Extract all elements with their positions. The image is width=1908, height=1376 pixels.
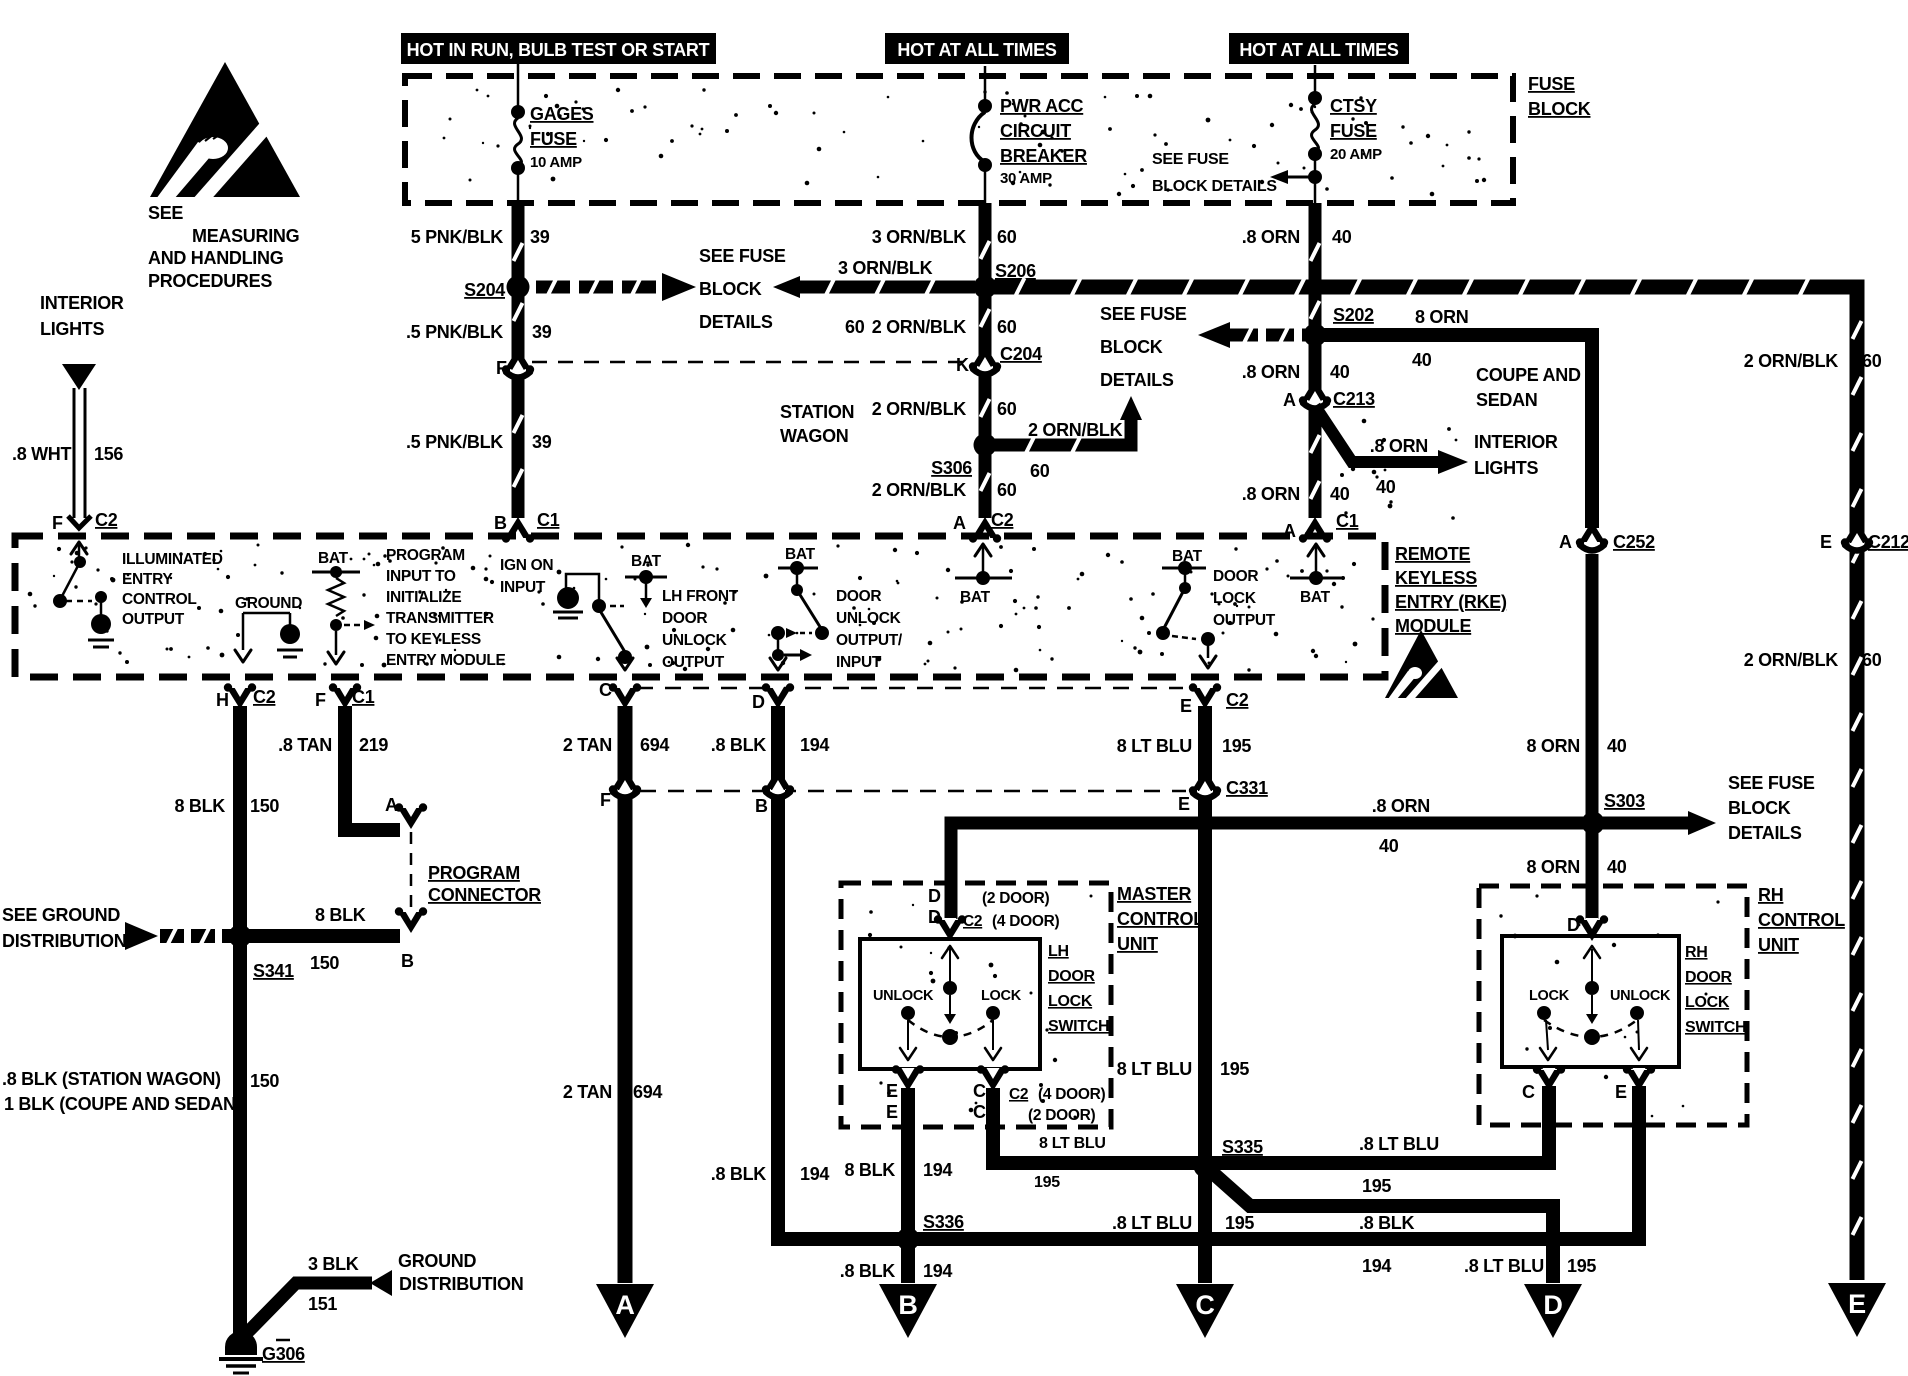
connector A C252 (inline on 40 ORN) xyxy=(1559,521,1655,552)
label 8 BLK 150 (program branch) xyxy=(310,905,366,973)
svg-text:OUTPUT: OUTPUT xyxy=(122,611,185,628)
svg-text:A: A xyxy=(1283,390,1296,410)
note SEE FUSE BLOCK DETAILS (far right) xyxy=(1728,773,1815,843)
svg-text:INTERIOR: INTERIOR xyxy=(1474,432,1558,452)
svg-text:UNIT: UNIT xyxy=(1758,935,1799,955)
label ILLUMINATED ENTRY CONTROL OUTPUT xyxy=(122,551,223,628)
svg-text:FUSE: FUSE xyxy=(1528,74,1575,94)
svg-text:D: D xyxy=(752,692,765,712)
ESD symbol (small, at module) xyxy=(1385,630,1458,702)
label PROGRAM CONNECTOR xyxy=(428,863,541,905)
svg-text:S335: S335 xyxy=(1222,1137,1263,1157)
svg-text:S341: S341 xyxy=(253,961,294,981)
wire 194 BLK from lh switch E to S336 xyxy=(901,1088,915,1283)
svg-text:40: 40 xyxy=(1330,362,1350,382)
label 3 BLK 151 xyxy=(308,1254,359,1314)
note SEE FUSE BLOCK DETAILS (center) xyxy=(699,246,786,332)
svg-text:PWR ACC: PWR ACC xyxy=(1000,96,1084,116)
svg-text:UNLOCK: UNLOCK xyxy=(873,988,934,1004)
label .8 WHT 156 xyxy=(12,444,123,464)
svg-text:FUSE: FUSE xyxy=(1330,121,1377,141)
label .8 BLK 194 (to offpage B) xyxy=(840,1261,953,1281)
label DOOR LOCK OUTPUT xyxy=(1213,568,1276,629)
svg-text:60: 60 xyxy=(997,399,1017,419)
svg-text:GROUND: GROUND xyxy=(398,1251,476,1271)
label IGN ON INPUT xyxy=(500,557,553,596)
svg-text:2 ORN/BLK: 2 ORN/BLK xyxy=(1028,420,1123,440)
svg-text:8 ORN: 8 ORN xyxy=(1526,736,1580,756)
module label REMOTE KEYLESS ENTRY (RKE) MODULE xyxy=(1395,544,1507,636)
svg-text:OUTPUT/: OUTPUT/ xyxy=(836,632,903,649)
svg-text:150: 150 xyxy=(250,796,279,816)
wire 219 TAN from F to program connector A xyxy=(345,706,400,830)
label LH FRONT DOOR UNLOCK OUTPUT xyxy=(662,588,739,671)
dashed link C2 connector row xyxy=(637,687,1183,690)
label .5 PNK/BLK 39 (upper) xyxy=(406,322,552,342)
svg-text:H: H xyxy=(216,690,229,710)
svg-text:2 TAN: 2 TAN xyxy=(563,735,612,755)
label 8 BLK 150 xyxy=(174,796,279,816)
svg-text:60: 60 xyxy=(997,317,1017,337)
svg-text:C212: C212 xyxy=(1868,532,1908,552)
svg-text:A: A xyxy=(1559,532,1572,552)
svg-text:195: 195 xyxy=(1220,1059,1249,1079)
switch RH DOOR LOCK SWITCH (box) xyxy=(1502,936,1679,1067)
svg-text:2 ORN/BLK: 2 ORN/BLK xyxy=(872,480,967,500)
svg-text:(4 DOOR): (4 DOOR) xyxy=(992,913,1059,930)
svg-text:40: 40 xyxy=(1607,736,1627,756)
svg-text:CTSY: CTSY xyxy=(1330,96,1377,116)
svg-text:G306: G306 xyxy=(262,1344,305,1364)
svg-text:HOT AT ALL TIMES: HOT AT ALL TIMES xyxy=(1239,40,1398,60)
connector D into rh switch xyxy=(1567,915,1608,941)
connector D into lh switch xyxy=(928,886,1059,941)
svg-text:DOOR: DOOR xyxy=(1048,968,1096,985)
fuse GAGES 10 AMP xyxy=(511,104,594,203)
svg-text:INITIALIZE: INITIALIZE xyxy=(386,589,461,606)
svg-text:60: 60 xyxy=(845,317,865,337)
svg-text:ILLUMINATED: ILLUMINATED xyxy=(122,551,223,568)
svg-text:39: 39 xyxy=(530,227,550,247)
svg-text:LH FRONT: LH FRONT xyxy=(662,588,739,605)
svg-text:C252: C252 xyxy=(1613,532,1655,552)
svg-text:40: 40 xyxy=(1412,350,1432,370)
svg-text:IGN ON: IGN ON xyxy=(500,557,553,574)
stipple texture xyxy=(28,88,1720,1119)
svg-text:OUTPUT: OUTPUT xyxy=(1213,612,1276,629)
wire 40 ORN branch from S202 to RH side xyxy=(1315,335,1592,528)
svg-text:LOCK: LOCK xyxy=(1685,994,1730,1011)
lh switch toggle xyxy=(873,946,1022,1060)
svg-text:195: 195 xyxy=(1225,1213,1254,1233)
label RH CONTROL UNIT xyxy=(1758,885,1845,955)
label .8 LT BLU 195 (at D arrow) xyxy=(1464,1256,1596,1276)
svg-text:LIGHTS: LIGHTS xyxy=(1474,458,1538,478)
label .8 ORN 40 (horizontal) xyxy=(1372,796,1430,856)
svg-text:B: B xyxy=(898,1290,917,1320)
label 8 ORN 40 (above S303) xyxy=(1526,736,1626,756)
svg-text:40: 40 xyxy=(1330,484,1350,504)
splice S206 xyxy=(974,261,1037,299)
svg-text:LIGHTS: LIGHTS xyxy=(40,319,104,339)
svg-text:S204: S204 xyxy=(464,280,505,300)
svg-text:30 AMP: 30 AMP xyxy=(1000,170,1052,187)
svg-text:TRANSMITTER: TRANSMITTER xyxy=(386,610,494,627)
svg-text:3 ORN/BLK: 3 ORN/BLK xyxy=(838,258,933,278)
wire 60 ORN/BLK (pwr acc feed) xyxy=(981,203,990,518)
svg-text:.8 BLK: .8 BLK xyxy=(711,735,767,755)
svg-text:E: E xyxy=(1178,794,1190,814)
wire 150 BLK from H xyxy=(233,706,247,1345)
lh front door unlock output circuit (in module) xyxy=(553,553,667,670)
svg-text:194: 194 xyxy=(1362,1256,1391,1276)
svg-text:.8 ORN: .8 ORN xyxy=(1370,436,1428,456)
label 2 ORN/BLK 60 (above C204) xyxy=(872,317,1017,337)
master control unit enclosure (dashed) xyxy=(841,883,1111,1127)
svg-text:S303: S303 xyxy=(1604,791,1645,811)
label 3 ORN/BLK 60 xyxy=(872,227,1017,247)
label MASTER CONTROL UNIT xyxy=(1117,884,1204,954)
svg-text:A: A xyxy=(385,795,398,815)
rh switch connectors C and E xyxy=(1522,1065,1655,1102)
svg-text:.8 ORN: .8 ORN xyxy=(1242,227,1300,247)
power header HOT AT ALL TIMES (center) xyxy=(885,33,1069,64)
svg-text:60: 60 xyxy=(1862,650,1882,670)
wire 156 WHT from interior lights (double line) xyxy=(62,364,96,528)
svg-text:2 ORN/BLK: 2 ORN/BLK xyxy=(872,317,967,337)
program connector A-B (dashed mate) xyxy=(385,795,427,971)
svg-text:A: A xyxy=(953,513,966,533)
wire 194 BLK from D xyxy=(778,706,1639,1239)
connector D (module door unlock out) xyxy=(752,683,794,712)
svg-text:MASTER: MASTER xyxy=(1117,884,1192,904)
svg-text:.5 PNK/BLK: .5 PNK/BLK xyxy=(406,322,503,342)
svg-text:.8 WHT: .8 WHT xyxy=(12,444,72,464)
wire 195 LT BLU from lh switch C to S335 xyxy=(993,1088,1205,1163)
svg-text:BLOCK: BLOCK xyxy=(1100,337,1163,357)
main bus wire 60 ORN/BLK to right side xyxy=(985,278,1862,1280)
fuse CTSY 20 AMP xyxy=(1308,91,1382,203)
svg-text:.8 BLK: .8 BLK xyxy=(711,1164,767,1184)
svg-text:LOCK: LOCK xyxy=(1529,988,1570,1004)
connector A C2 (module bat) xyxy=(953,510,1014,543)
svg-text:BREAKER: BREAKER xyxy=(1000,146,1087,166)
svg-text:DISTRIBUTION: DISTRIBUTION xyxy=(399,1274,523,1294)
connector K C204 (inline) xyxy=(956,344,1042,375)
connector A C1 (module bat right) xyxy=(1283,511,1359,543)
svg-text:UNLOCK: UNLOCK xyxy=(836,610,902,627)
svg-text:D: D xyxy=(928,886,941,906)
note SEE FUSE BLOCK DETAILS (inside fuse block) xyxy=(1152,151,1322,195)
svg-text:KEYLESS: KEYLESS xyxy=(1395,568,1477,588)
svg-text:LOCK: LOCK xyxy=(981,988,1022,1004)
svg-text:CIRCUIT: CIRCUIT xyxy=(1000,121,1071,141)
label .8 ORN 40 (branch to interior lights) xyxy=(1370,436,1428,497)
svg-text:TO KEYLESS: TO KEYLESS xyxy=(386,631,481,648)
svg-text:SEE FUSE: SEE FUSE xyxy=(1152,151,1229,168)
illuminated entry output circuit (in module) xyxy=(53,542,114,647)
svg-text:AND HANDLING: AND HANDLING xyxy=(148,248,283,268)
svg-text:60: 60 xyxy=(997,227,1017,247)
svg-text:10 AMP: 10 AMP xyxy=(530,154,582,171)
label .8 BLK 194 (at corner) xyxy=(711,1164,830,1184)
dashed link F/B connector row xyxy=(640,790,1186,793)
svg-text:HOT AT ALL TIMES: HOT AT ALL TIMES xyxy=(897,40,1056,60)
label PROGRAM INPUT TO INITIALIZE TRANSMITTER TO KEYLESS ENTRY MODULE xyxy=(386,547,506,669)
svg-text:.8 LT BLU: .8 LT BLU xyxy=(1359,1134,1439,1154)
arrow from S204 to see fuse block details xyxy=(536,273,696,301)
node INTERIOR LIGHTS label xyxy=(40,293,124,339)
svg-text:8 ORN: 8 ORN xyxy=(1526,857,1580,877)
svg-text:.8 TAN: .8 TAN xyxy=(278,735,332,755)
svg-text:C213: C213 xyxy=(1333,389,1375,409)
svg-text:DETAILS: DETAILS xyxy=(1100,370,1174,390)
label 2 ORN/BLK 60 (above S306) xyxy=(872,399,1017,419)
svg-text:DOOR: DOOR xyxy=(1685,969,1733,986)
svg-text:40: 40 xyxy=(1379,836,1399,856)
svg-text:SEE FUSE: SEE FUSE xyxy=(1100,304,1187,324)
connector F (inline, gages wire) xyxy=(496,348,534,378)
svg-text:2 ORN/BLK: 2 ORN/BLK xyxy=(872,399,967,419)
svg-text:SWITCH: SWITCH xyxy=(1685,1019,1746,1036)
connector E C212 (inline on right bus) xyxy=(1820,521,1908,552)
svg-text:C2: C2 xyxy=(991,510,1014,530)
connector B (inline on 194) xyxy=(755,768,794,816)
svg-text:(4 DOOR): (4 DOOR) xyxy=(1038,1086,1105,1103)
connector F (inline on 694) xyxy=(600,768,641,810)
svg-text:COUPE AND: COUPE AND xyxy=(1476,365,1581,385)
rh control unit enclosure (dashed) xyxy=(1479,886,1747,1125)
svg-text:FUSE: FUSE xyxy=(530,129,577,149)
svg-text:F: F xyxy=(496,358,507,378)
svg-text:BAT: BAT xyxy=(960,589,991,606)
label LH DOOR LOCK SWITCH xyxy=(1048,943,1109,1035)
svg-text:ENTRY: ENTRY xyxy=(122,571,173,588)
svg-text:8 LT BLU: 8 LT BLU xyxy=(1117,736,1192,756)
svg-text:DISTRIBUTION: DISTRIBUTION xyxy=(2,931,126,951)
svg-text:ENTRY (RKE): ENTRY (RKE) xyxy=(1395,592,1507,612)
svg-text:C: C xyxy=(1195,1290,1214,1320)
svg-text:8 BLK: 8 BLK xyxy=(174,796,225,816)
splice S336 xyxy=(897,1212,965,1251)
svg-text:A: A xyxy=(615,1290,634,1320)
svg-text:BLOCK: BLOCK xyxy=(1728,798,1791,818)
svg-text:40: 40 xyxy=(1376,477,1396,497)
svg-text:INTERIOR: INTERIOR xyxy=(40,293,124,313)
label DOOR UNLOCK OUTPUT/INPUT xyxy=(836,588,903,671)
svg-text:.8 BLK: .8 BLK xyxy=(1359,1213,1415,1233)
label 8 BLK 194 xyxy=(844,1160,952,1180)
svg-text:151: 151 xyxy=(308,1294,337,1314)
connector E C2 (module door unlock output) xyxy=(1180,683,1249,716)
label 8 ORN 40 (below S303) xyxy=(1526,857,1626,877)
svg-text:C: C xyxy=(1522,1082,1535,1102)
svg-text:C2: C2 xyxy=(1009,1086,1028,1103)
label .8 ORN 40 (above A C1) xyxy=(1242,484,1350,504)
svg-text:C2: C2 xyxy=(963,913,982,930)
svg-text:F: F xyxy=(315,690,326,710)
svg-text:.8 ORN: .8 ORN xyxy=(1242,484,1300,504)
wire from header to GAGES fuse xyxy=(517,64,520,110)
offpage arrow B xyxy=(879,1284,937,1338)
svg-text:BAT: BAT xyxy=(785,546,816,563)
label 3 ORN/BLK 60 on arrow xyxy=(838,258,933,337)
svg-text:194: 194 xyxy=(800,735,829,755)
wire 40 ORN (ctsy feed) xyxy=(1311,203,1320,518)
splice S306 with branch arrow up xyxy=(931,396,1142,478)
svg-text:156: 156 xyxy=(94,444,123,464)
wire 195 LT BLU from E C2 xyxy=(1198,706,1212,1283)
module BAT input (A C1) xyxy=(1290,544,1342,606)
svg-text:INPUT: INPUT xyxy=(836,654,882,671)
svg-text:195: 195 xyxy=(1222,736,1251,756)
svg-text:E: E xyxy=(886,1102,898,1122)
dashed link F to C204 xyxy=(532,361,968,364)
svg-text:150: 150 xyxy=(250,1071,279,1091)
svg-text:694: 694 xyxy=(633,1082,662,1102)
svg-text:.8 BLK (STATION WAGON): .8 BLK (STATION WAGON) xyxy=(2,1069,221,1089)
splice S204 xyxy=(464,276,529,301)
svg-text:60: 60 xyxy=(1030,461,1050,481)
svg-text:SEE: SEE xyxy=(148,203,183,223)
label 2 ORN/BLK 60 (lower) xyxy=(872,480,1017,500)
label 5 PNK/BLK 39 xyxy=(411,227,550,247)
svg-text:K: K xyxy=(956,355,969,375)
svg-text:.8 LT BLU: .8 LT BLU xyxy=(1464,1256,1544,1276)
svg-text:INPUT TO: INPUT TO xyxy=(386,568,456,585)
svg-text:C1: C1 xyxy=(352,687,375,707)
wire 150 BLK from S341 to program connector B xyxy=(240,929,400,943)
label 150 (lower) xyxy=(250,1071,279,1091)
lh switch connectors E and C xyxy=(886,1065,1105,1124)
wire 151 BLK branch to ground distribution xyxy=(243,1270,392,1337)
svg-text:S206: S206 xyxy=(995,261,1036,281)
note SEE FUSE BLOCK DETAILS (right of center) xyxy=(1100,304,1187,390)
note STATION WAGON xyxy=(780,402,854,446)
svg-text:C331: C331 xyxy=(1226,778,1268,798)
svg-text:F: F xyxy=(52,513,63,533)
svg-text:E: E xyxy=(1615,1082,1627,1102)
wire 195 LT BLU rh C stub xyxy=(1542,1088,1556,1163)
label .8 TAN 219 xyxy=(278,735,388,755)
svg-text:WAGON: WAGON xyxy=(780,426,849,446)
svg-text:SEE FUSE: SEE FUSE xyxy=(1728,773,1815,793)
door lock output circuit (in module) xyxy=(1156,548,1216,668)
offpage arrow D xyxy=(1524,1284,1582,1338)
label 8 LT BLU 195 (lh c wire) xyxy=(1034,1135,1106,1191)
svg-text:RH: RH xyxy=(1758,885,1783,905)
wire 39 PNK/BLK (gages feed) xyxy=(514,203,523,518)
svg-text:39: 39 xyxy=(532,432,552,452)
label .5 PNK/BLK 39 (lower) xyxy=(406,432,552,452)
module BAT pullup resistor (program input) xyxy=(312,550,375,664)
svg-text:5 PNK/BLK: 5 PNK/BLK xyxy=(411,227,504,247)
label .8 LT BLU 195 (upper rh wire) xyxy=(1359,1134,1439,1196)
ground G306 xyxy=(219,1332,305,1373)
svg-text:.8 LT BLU: .8 LT BLU xyxy=(1112,1213,1192,1233)
label 2 ORN/BLK 60 (right bus upper) xyxy=(1744,351,1882,371)
svg-text:S306: S306 xyxy=(931,458,972,478)
svg-text:(2 DOOR): (2 DOOR) xyxy=(982,890,1049,907)
svg-text:195: 195 xyxy=(1362,1176,1391,1196)
svg-text:2 TAN: 2 TAN xyxy=(563,1082,612,1102)
fuse block enclosure (dashed) xyxy=(405,76,1513,203)
svg-text:F: F xyxy=(600,790,611,810)
connector F C1 (module program out) xyxy=(315,683,375,710)
svg-text:LOCK: LOCK xyxy=(1048,993,1093,1010)
svg-text:3 ORN/BLK: 3 ORN/BLK xyxy=(872,227,967,247)
power header HOT AT ALL TIMES (right) xyxy=(1229,33,1409,64)
switch LH DOOR LOCK SWITCH (box) xyxy=(860,939,1040,1069)
svg-text:C2: C2 xyxy=(1226,690,1249,710)
connector B C1 (module ign input) xyxy=(494,510,560,543)
svg-text:E: E xyxy=(1848,1289,1866,1319)
svg-text:ENTRY MODULE: ENTRY MODULE xyxy=(386,652,506,669)
ESD handling warning symbol xyxy=(150,62,300,206)
remote keyless entry module enclosure (dashed) xyxy=(15,536,1385,677)
svg-text:195: 195 xyxy=(1034,1174,1060,1191)
svg-text:.5 PNK/BLK: .5 PNK/BLK xyxy=(406,432,503,452)
svg-text:S202: S202 xyxy=(1333,305,1374,325)
label .8 ORN 40 (top) xyxy=(1242,227,1352,247)
svg-text:C2: C2 xyxy=(95,510,118,530)
wire 694 TAN to A xyxy=(618,706,633,1283)
svg-text:BLOCK: BLOCK xyxy=(1528,99,1591,119)
svg-text:SWITCH: SWITCH xyxy=(1048,1018,1109,1035)
svg-text:2 ORN/BLK: 2 ORN/BLK xyxy=(1744,351,1839,371)
connector E C331 (inline) xyxy=(1178,769,1268,814)
note SEE MEASURING AND HANDLING PROCEDURES xyxy=(148,203,299,291)
connector F C2 (interior lights into module) xyxy=(52,510,118,533)
offpage arrow E xyxy=(1828,1283,1886,1337)
splice S335 xyxy=(1194,1137,1264,1178)
svg-text:SEE FUSE: SEE FUSE xyxy=(699,246,786,266)
svg-text:PROGRAM: PROGRAM xyxy=(428,863,520,883)
svg-text:UNIT: UNIT xyxy=(1117,934,1158,954)
svg-text:STATION: STATION xyxy=(780,402,854,422)
svg-text:D: D xyxy=(928,907,941,927)
svg-text:(2 DOOR): (2 DOOR) xyxy=(1028,1107,1095,1124)
svg-text:CONNECTOR: CONNECTOR xyxy=(428,885,541,905)
svg-text:BAT: BAT xyxy=(631,553,662,570)
label .8 BLK 194 (long 194 wire) xyxy=(1359,1213,1415,1276)
svg-text:MEASURING: MEASURING xyxy=(192,226,299,246)
wire 40 ORN horizontal to master control unit xyxy=(951,823,1590,919)
svg-text:DETAILS: DETAILS xyxy=(1728,823,1802,843)
arrow from S202 to see fuse block details (points left) xyxy=(1198,322,1308,348)
svg-text:HOT IN RUN, BULB TEST OR START: HOT IN RUN, BULB TEST OR START xyxy=(407,40,710,60)
svg-text:8 LT BLU: 8 LT BLU xyxy=(1117,1059,1192,1079)
connector H C2 (module ground out) xyxy=(216,683,276,710)
svg-text:694: 694 xyxy=(640,735,669,755)
svg-text:2 ORN/BLK: 2 ORN/BLK xyxy=(1744,650,1839,670)
svg-text:E: E xyxy=(886,1081,898,1101)
svg-text:194: 194 xyxy=(800,1164,829,1184)
label 2 TAN 694 (lower) xyxy=(563,1082,663,1102)
svg-text:SEE GROUND: SEE GROUND xyxy=(2,905,120,925)
label 8 LT BLU 195 (c331 wire mid) xyxy=(1117,1059,1250,1079)
door unlock output/input circuit (in module) xyxy=(770,546,829,670)
svg-text:3 BLK: 3 BLK xyxy=(308,1254,359,1274)
label 8 LT BLU 195 (upper) xyxy=(1117,736,1252,756)
svg-text:BAT: BAT xyxy=(318,550,349,567)
splice S202 xyxy=(1304,305,1375,347)
offpage arrow A xyxy=(596,1284,654,1338)
wire 195 LT BLU from S335 to RH C xyxy=(1205,1086,1556,1170)
power header HOT IN RUN BULB TEST OR START xyxy=(401,33,716,64)
label .8 BLK 194 (upper) xyxy=(711,735,830,755)
svg-text:B: B xyxy=(401,951,414,971)
